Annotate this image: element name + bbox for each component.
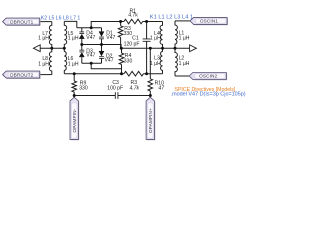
wire bridge mid rail jog to tap node bbox=[102, 45, 122, 49]
diode D3 bbox=[79, 50, 84, 57]
inductor L8 bbox=[49, 48, 51, 74]
port DBROUT1 bbox=[3, 18, 41, 26]
port OSCIN2 bbox=[189, 73, 227, 81]
junction bridge mid left bbox=[80, 43, 83, 46]
wire L2 bottom to OSCIN2 bbox=[175, 75, 189, 77]
resistor R3 330 bbox=[118, 26, 123, 38]
wire mid level tap wire bbox=[122, 47, 190, 49]
svg-text:1 µH: 1 µH bbox=[38, 35, 49, 41]
junction opamp+ node bbox=[149, 94, 152, 97]
port DBROUT2 bbox=[3, 71, 41, 79]
wire OPAMPIN- stub bbox=[73, 96, 75, 98]
junction bridge bottom centre bbox=[90, 62, 93, 65]
svg-text:DBROUT2: DBROUT2 bbox=[10, 72, 34, 77]
svg-text:4.7k: 4.7k bbox=[128, 12, 138, 18]
junction L4/L3 tap bbox=[161, 47, 164, 50]
svg-text:1 µH: 1 µH bbox=[68, 35, 79, 41]
junction R10 top bbox=[149, 47, 152, 50]
svg-text:1 µH: 1 µH bbox=[150, 36, 161, 42]
svg-text:330: 330 bbox=[79, 86, 88, 92]
wire bridge top rail bbox=[77, 27, 102, 29]
svg-text:4.7k: 4.7k bbox=[129, 86, 139, 92]
wire R3b to L3 bottom bbox=[144, 73, 163, 75]
inductor L4 bbox=[160, 22, 162, 49]
wire bottom main bbox=[64, 73, 124, 75]
svg-text:1 µH: 1 µH bbox=[179, 61, 190, 67]
junction L5/L6 tap bbox=[63, 47, 66, 50]
capacitor C3 plates bbox=[115, 92, 118, 99]
junction tap node R4 top bbox=[120, 47, 123, 50]
diode D4 bbox=[79, 32, 84, 39]
port OSCIN1 bbox=[190, 17, 228, 25]
inductor L1 bbox=[175, 21, 177, 48]
inductor L7 bbox=[49, 22, 51, 49]
svg-text:330: 330 bbox=[124, 58, 133, 64]
inductor L5 bbox=[64, 21, 66, 48]
svg-text:V47: V47 bbox=[106, 35, 115, 41]
wire bridge centre to R1 wire bbox=[91, 22, 124, 28]
inductor L2 bbox=[175, 48, 177, 76]
junction L7/L8 tap bbox=[50, 47, 53, 50]
svg-text:1 µH: 1 µH bbox=[38, 61, 49, 67]
svg-text:K2 L5 L6 L8 L7 1: K2 L5 L6 L8 L7 1 bbox=[41, 16, 81, 22]
junction bridge mid right bbox=[100, 43, 103, 46]
capacitor C1 leads bbox=[146, 22, 148, 74]
diode D2 bbox=[99, 51, 104, 58]
svg-text:120 pF: 120 pF bbox=[124, 41, 140, 47]
tap marker triangle right bbox=[190, 45, 197, 52]
resistor R10 lead bottom bbox=[149, 91, 151, 96]
resistor R4 bbox=[119, 53, 124, 65]
wire C3 left bbox=[74, 95, 115, 97]
svg-text:V47: V47 bbox=[86, 53, 95, 59]
resistor R10 bbox=[148, 79, 153, 91]
inductor L3 bbox=[160, 48, 162, 73]
svg-text:OPAMPIN+: OPAMPIN+ bbox=[148, 108, 153, 133]
diode D3 leads bbox=[81, 45, 83, 64]
wire bridge bottom rail bbox=[82, 62, 102, 64]
svg-text:K1 L1 L2 L3 L4 1: K1 L1 L2 L3 L4 1 bbox=[150, 15, 193, 21]
resistor R9 leads bbox=[73, 74, 75, 96]
wire R1 to C1/L4 node bbox=[143, 21, 163, 23]
resistor R1 bbox=[124, 19, 143, 24]
junction C1/L4 top node bbox=[145, 20, 148, 23]
wire C3 right bbox=[118, 95, 150, 97]
svg-text:1 µH: 1 µH bbox=[150, 61, 161, 67]
wire L8 bottom to DBROUT2 bbox=[40, 74, 52, 76]
diode D2 leads bbox=[101, 45, 103, 64]
diode D4 leads bbox=[81, 28, 83, 45]
resistor R3 leads bbox=[120, 22, 122, 49]
wire bridge mid rail bbox=[82, 44, 102, 46]
capacitor C1 plates bbox=[143, 39, 151, 41]
svg-text:.model V47 D(Is=3p Cjo=105p): .model V47 D(Is=3p Cjo=105p) bbox=[171, 92, 246, 98]
svg-text:OSCIN1: OSCIN1 bbox=[200, 19, 218, 24]
svg-text:V47: V47 bbox=[105, 58, 114, 64]
junction C1 bottom bbox=[145, 72, 148, 75]
diode D1 leads bbox=[101, 28, 103, 45]
junction R3 top bbox=[119, 20, 122, 23]
junction R4 bottom bbox=[120, 72, 123, 75]
wire L1 top to OSCIN1 bbox=[175, 20, 190, 22]
resistor R3b 4.7k bbox=[124, 71, 144, 76]
port OPAMPIN+ bbox=[146, 97, 155, 140]
diode D1 bbox=[99, 32, 104, 39]
resistor R9 bbox=[72, 81, 77, 92]
svg-text:1 µH: 1 µH bbox=[68, 61, 79, 67]
tap marker triangle left bbox=[33, 45, 40, 52]
svg-text:330: 330 bbox=[124, 31, 133, 37]
port OPAMPIN- bbox=[70, 97, 79, 140]
junction opamp- node bbox=[73, 94, 76, 97]
svg-text:V47: V47 bbox=[86, 35, 95, 41]
svg-text:OPAMPIN-: OPAMPIN- bbox=[72, 108, 77, 132]
inductor L6 bbox=[64, 48, 66, 73]
resistor R4 leads bbox=[121, 48, 123, 73]
wire left taps bbox=[40, 47, 64, 49]
junction R9 top node bbox=[73, 72, 76, 75]
svg-text:100 pF: 100 pF bbox=[107, 86, 123, 92]
wire DBROUT1 to L7 top bbox=[40, 21, 52, 23]
svg-text:47: 47 bbox=[158, 85, 164, 91]
junction L1/L2 tap bbox=[174, 47, 177, 50]
svg-text:OSCIN2: OSCIN2 bbox=[199, 74, 217, 79]
junction bridge top centre bbox=[90, 26, 93, 29]
wire L5 top to bridge top rail bbox=[64, 21, 77, 27]
svg-text:C1: C1 bbox=[132, 35, 139, 41]
wire OPAMPIN+ stub bbox=[149, 96, 151, 98]
svg-text:DBROUT1: DBROUT1 bbox=[10, 19, 34, 24]
svg-text:1 µH: 1 µH bbox=[179, 35, 190, 41]
resistor R10 lead top bbox=[149, 48, 151, 79]
wire bridge bottom jog to R4 bottom node bbox=[91, 63, 121, 73]
